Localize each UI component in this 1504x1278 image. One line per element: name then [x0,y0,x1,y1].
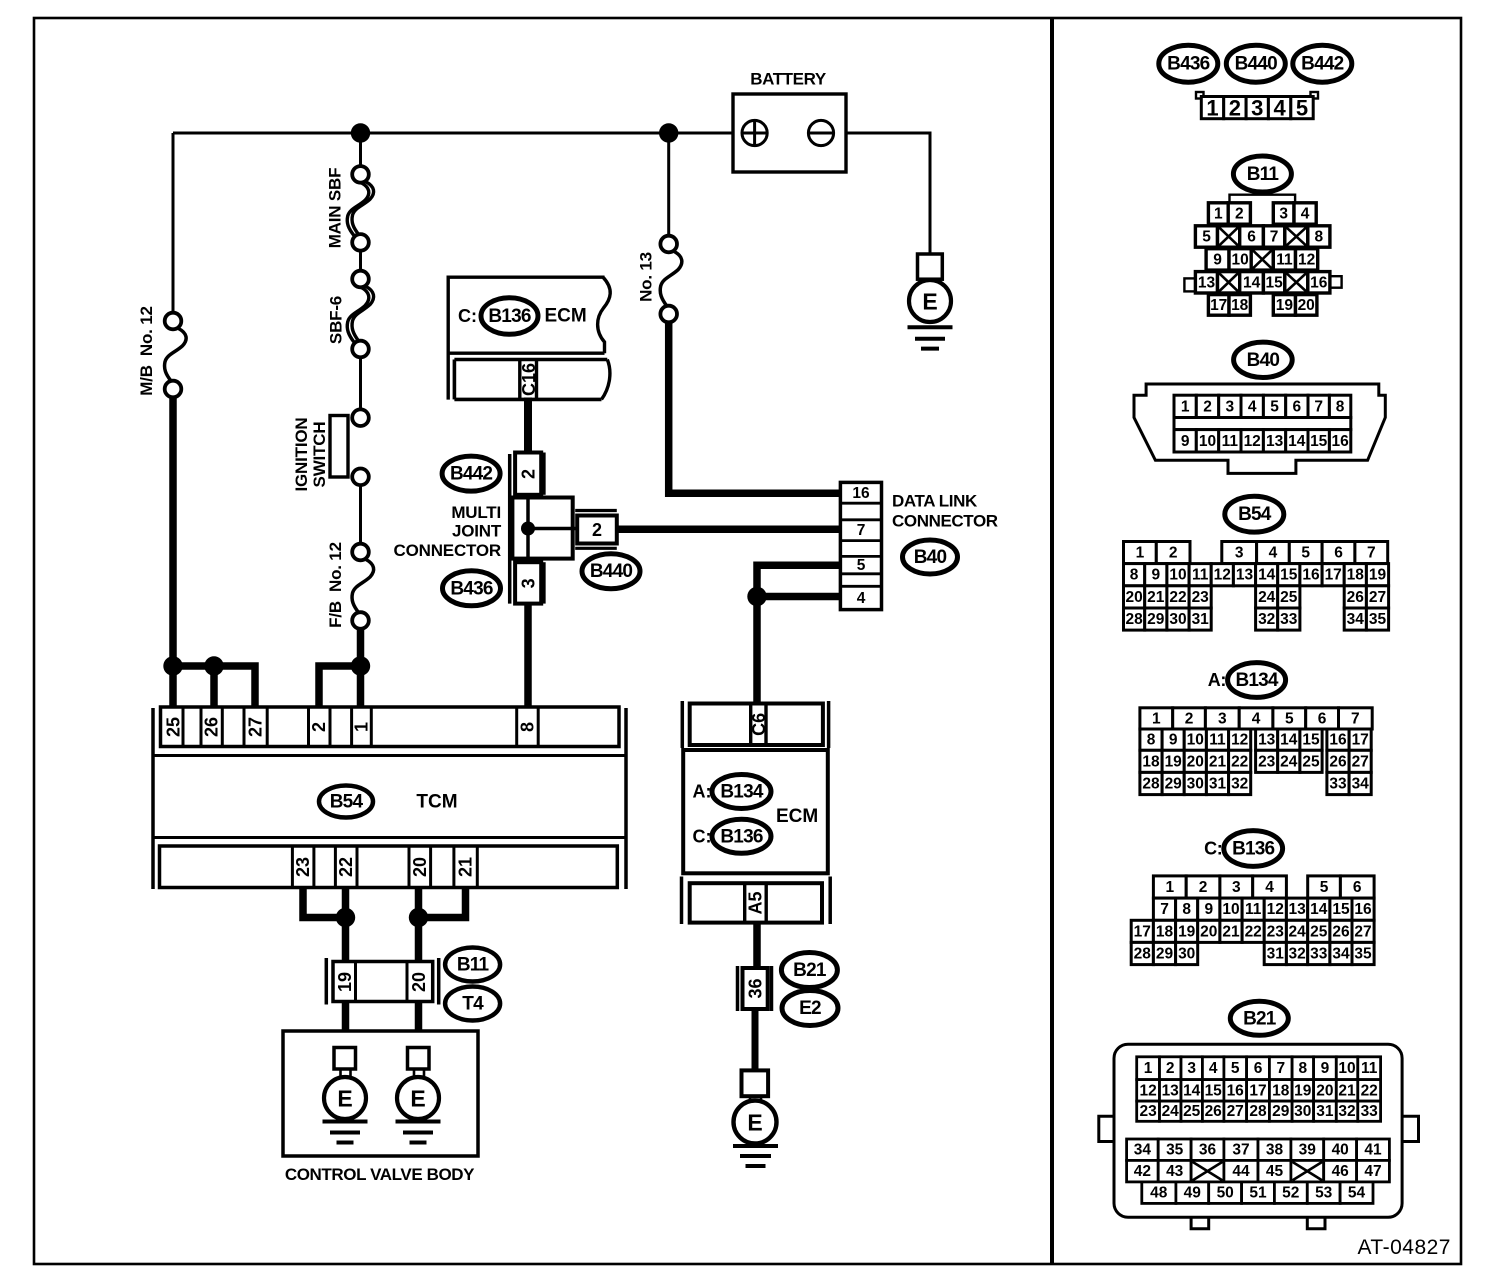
svg-text:8: 8 [1298,1060,1307,1077]
svg-text:6: 6 [1318,710,1327,727]
svg-text:13: 13 [1288,901,1306,918]
svg-text:48: 48 [1150,1185,1168,1202]
solenoid ground E (pin 20) [396,1048,441,1143]
mjc side pin 2 (B440) [575,509,617,512]
svg-text:9: 9 [1181,433,1190,450]
svg-text:BATTERY: BATTERY [750,70,827,89]
label B440 [582,554,640,589]
svg-text:38: 38 [1266,1142,1284,1159]
svg-text:2: 2 [592,520,602,540]
connector pinout B40 [1134,384,1385,473]
svg-text:21: 21 [1209,753,1227,770]
svg-text:5: 5 [1202,229,1211,246]
svg-text:11: 11 [1222,433,1239,450]
wire: mjc side pin 2 to data link connector pin 7 [617,526,841,534]
svg-text:26: 26 [1205,1103,1223,1120]
svg-text:20: 20 [1125,589,1142,606]
svg-text:20: 20 [410,857,430,877]
svg-text:19: 19 [1178,923,1196,940]
connector pinout B21 [1099,1044,1419,1229]
svg-text:17: 17 [1352,732,1369,749]
svg-text:25: 25 [1310,923,1328,940]
svg-text:7: 7 [1351,710,1360,727]
svg-text:22: 22 [1245,923,1262,940]
svg-text:30: 30 [1169,611,1186,628]
svg-text:MULTI: MULTI [451,503,501,522]
svg-text:2: 2 [1235,206,1244,223]
svg-text:15: 15 [1265,274,1283,291]
svg-text:13: 13 [1198,274,1216,291]
svg-text:31: 31 [1267,946,1285,963]
svg-text:6: 6 [1353,879,1362,896]
wire: MAIN SBF branch from bus (thin) [359,133,362,167]
svg-text:8: 8 [1314,229,1323,246]
svg-text:20: 20 [1298,297,1315,314]
svg-text:B442: B442 [1301,54,1343,75]
svg-text:23: 23 [1139,1103,1157,1120]
svg-text:11: 11 [1245,901,1262,918]
svg-text:3: 3 [1232,879,1241,896]
svg-text:21: 21 [1338,1082,1356,1099]
tcm top connector row [161,707,620,747]
wire: junction feed to TCM pins 25/26/27 [173,666,255,708]
svg-text:19: 19 [1369,567,1387,584]
svg-text:32: 32 [1231,776,1248,793]
svg-text:B440: B440 [1235,54,1277,75]
svg-text:ECM: ECM [776,806,818,827]
svg-text:12: 12 [1267,901,1284,918]
svg-text:53: 53 [1315,1185,1333,1202]
svg-text:29: 29 [1272,1103,1290,1120]
svg-text:E: E [337,1086,352,1112]
svg-text:5: 5 [1270,398,1279,415]
svg-text:25: 25 [164,717,184,737]
svg-text:10: 10 [1169,567,1186,584]
svg-text:24: 24 [1162,1103,1180,1120]
svg-text:16: 16 [1329,732,1347,749]
svg-text:19: 19 [1276,297,1294,314]
svg-text:2: 2 [309,722,329,732]
wire: battery positive bus (top horizontal) [173,132,743,135]
svg-text:5: 5 [1285,710,1294,727]
svg-text:21: 21 [1222,923,1240,940]
svg-text:4: 4 [1248,398,1257,415]
svg-text:22: 22 [336,857,356,877]
svg-text:A:: A: [1208,670,1226,690]
svg-text:B436: B436 [450,578,492,599]
svg-text:20: 20 [409,972,429,992]
svg-text:E: E [922,289,937,315]
svg-text:30: 30 [1294,1103,1311,1120]
connector pinout B11 [1184,195,1341,316]
svg-text:8: 8 [1147,732,1156,749]
svg-text:9: 9 [1204,901,1213,918]
svg-text:28: 28 [1249,1103,1267,1120]
svg-text:13: 13 [1258,732,1276,749]
wire: ignition switch to F/B No. 12 [359,485,362,544]
panel divider line [1050,19,1054,1263]
svg-text:21: 21 [456,857,476,877]
wire: TCM pin 20 down to T4 pin 20 [415,886,423,962]
svg-text:12: 12 [1244,433,1261,450]
svg-text:15: 15 [1280,567,1298,584]
svg-text:12: 12 [1214,567,1231,584]
svg-text:B440: B440 [590,561,632,582]
wire: F/B No.12 fuse to TCM pins 1/2 junction (thick) [357,628,365,666]
svg-text:CONNECTOR: CONNECTOR [394,541,501,560]
ECM connector C16 (torn box) [447,276,611,400]
svg-text:11: 11 [1276,251,1293,268]
svg-text:8: 8 [1130,567,1139,584]
svg-text:33: 33 [1280,611,1298,628]
svg-text:3: 3 [1218,710,1227,727]
svg-text:23: 23 [293,857,313,877]
svg-text:ECM: ECM [545,306,587,327]
svg-text:27: 27 [246,717,266,737]
svg-text:C16: C16 [519,363,539,396]
mjc body [512,498,572,559]
svg-text:CONNECTOR: CONNECTOR [892,512,998,531]
node: junction M/B pin26 [204,656,223,675]
label T4 [445,987,500,1021]
svg-text:4: 4 [1252,710,1261,727]
svg-text:14: 14 [1243,274,1261,291]
svg-text:13: 13 [1236,567,1254,584]
svg-text:9: 9 [1213,251,1222,268]
svg-text:32: 32 [1338,1103,1355,1120]
svg-text:B136: B136 [488,306,530,327]
label B442 (panel) [1293,45,1352,82]
svg-text:51: 51 [1249,1185,1267,1202]
svg-text:4: 4 [1265,879,1274,896]
inline connector B11/T4 pins 19-20 [326,958,438,1005]
svg-text:21: 21 [1147,589,1165,606]
svg-text:14: 14 [1258,567,1276,584]
svg-text:17: 17 [1325,567,1342,584]
node: bus junction at No. 13 branch [659,123,678,142]
tcm body edges [153,754,626,757]
label B21 [781,953,837,988]
svg-text:M/B No. 12: M/B No. 12 [137,306,156,395]
mjc internal wire [526,498,530,559]
svg-text:28: 28 [1125,611,1143,628]
node: mjc junction [521,522,535,536]
svg-text:15: 15 [1302,732,1320,749]
svg-text:12: 12 [1231,732,1248,749]
svg-text:16: 16 [1354,901,1372,918]
svg-text:18: 18 [1142,753,1160,770]
ECM body [683,750,828,873]
svg-text:3: 3 [1235,545,1244,562]
svg-text:B436: B436 [1167,54,1209,75]
svg-text:1: 1 [1206,96,1218,121]
wire: No. 13 branch (thin above fuse) [667,133,670,237]
svg-text:22: 22 [1361,1082,1378,1099]
svg-text:23: 23 [1258,753,1276,770]
svg-text:17: 17 [1210,297,1227,314]
svg-text:31: 31 [1316,1103,1334,1120]
node: junction F/B pins 1-2 [351,656,370,675]
svg-text:19: 19 [1165,753,1183,770]
svg-text:43: 43 [1166,1163,1184,1180]
svg-text:1: 1 [1214,206,1223,223]
label B11 [445,948,500,982]
wire: T4 pin 19 to solenoid 1 [342,1002,350,1049]
svg-text:16: 16 [1331,433,1349,450]
label B436 [443,571,501,606]
svg-text:32: 32 [1288,946,1305,963]
svg-text:24: 24 [1288,923,1306,940]
svg-text:C:: C: [1204,839,1222,859]
label B11 (panel) [1233,156,1291,192]
svg-text:AT-04827: AT-04827 [1357,1236,1451,1259]
svg-text:1: 1 [352,722,372,732]
svg-text:13: 13 [1266,433,1284,450]
svg-text:10: 10 [1338,1060,1355,1077]
svg-text:4: 4 [1273,96,1286,121]
svg-text:18: 18 [1347,567,1365,584]
svg-text:45: 45 [1266,1163,1284,1180]
svg-text:34: 34 [1347,611,1365,628]
svg-text:36: 36 [1199,1142,1217,1159]
svg-text:2: 2 [1203,398,1212,415]
svg-text:30: 30 [1187,776,1204,793]
label B436 (panel) [1159,45,1218,82]
label E2 [782,991,838,1026]
svg-text:18: 18 [1272,1082,1290,1099]
control valve body [283,1031,478,1156]
svg-text:10: 10 [1187,732,1204,749]
wire: battery negative lead to ground [834,133,931,255]
svg-text:35: 35 [1166,1142,1184,1159]
svg-text:MAIN SBF: MAIN SBF [326,168,345,249]
fuse SBF-6 [347,271,373,358]
svg-text:11: 11 [1361,1060,1378,1077]
svg-text:47: 47 [1364,1163,1381,1180]
node: junction M/B pin25 [163,656,182,675]
svg-text:34: 34 [1134,1142,1152,1159]
wire: No. 13 fuse to data link connector pin 16 (thick) [669,322,841,494]
svg-text:DATA LINK: DATA LINK [892,492,978,511]
svg-text:17: 17 [1134,923,1151,940]
svg-text:23: 23 [1267,923,1285,940]
svg-text:7: 7 [1270,229,1279,246]
connector pinout B136 [1131,876,1374,965]
svg-text:27: 27 [1354,923,1371,940]
label B40 (panel) [1234,342,1293,377]
svg-text:9: 9 [1169,732,1178,749]
svg-text:24: 24 [1280,753,1298,770]
svg-text:13: 13 [1162,1082,1180,1099]
svg-text:26: 26 [1332,923,1350,940]
svg-text:24: 24 [1258,589,1276,606]
svg-text:1: 1 [1136,545,1145,562]
svg-text:1: 1 [1144,1060,1153,1077]
svg-text:12: 12 [1298,251,1315,268]
wire: DLC pins 4/5 to ECM C6 [757,565,841,703]
svg-text:26: 26 [202,717,222,737]
svg-text:20: 20 [1200,923,1217,940]
svg-text:12: 12 [1139,1082,1156,1099]
svg-text:5: 5 [857,557,866,574]
svg-text:18: 18 [1156,923,1174,940]
mjc pin 3 (B436) [515,562,541,603]
svg-text:B134: B134 [1235,670,1278,691]
svg-text:31: 31 [1209,776,1227,793]
svg-text:19: 19 [1294,1082,1312,1099]
svg-text:3: 3 [1187,1060,1196,1077]
b21 left tab [1099,1116,1114,1141]
svg-text:11: 11 [1209,732,1226,749]
svg-text:4: 4 [857,590,866,607]
ground E (ECM) [733,1070,778,1166]
svg-text:33: 33 [1329,776,1347,793]
svg-text:22: 22 [1231,753,1248,770]
svg-text:39: 39 [1299,1142,1317,1159]
svg-text:31: 31 [1192,611,1210,628]
wire: TCM pin 23 to junction [303,886,346,918]
svg-text:B134: B134 [720,782,763,803]
tcm bottom connector row [160,846,618,888]
svg-text:14: 14 [1280,732,1298,749]
svg-text:27: 27 [1352,753,1369,770]
svg-text:C:: C: [458,306,477,326]
ignition switch [330,409,369,485]
svg-text:17: 17 [1249,1082,1266,1099]
svg-text:B21: B21 [793,960,827,981]
data link connector B40 [840,482,881,609]
solenoid ground E (pin 19) [323,1048,368,1143]
svg-text:E: E [747,1110,762,1136]
svg-text:9: 9 [1321,1060,1330,1077]
svg-text:34: 34 [1352,776,1370,793]
svg-text:8: 8 [1182,901,1191,918]
svg-text:1: 1 [1165,879,1174,896]
ECM connector C6 [682,701,828,748]
connector pinout B436/B440/B442 (5 pin) [1196,92,1318,121]
svg-text:33: 33 [1361,1103,1379,1120]
label B440 (panel) [1226,45,1285,82]
svg-text:25: 25 [1183,1103,1201,1120]
b21 bottom tabs [1191,1217,1209,1228]
b21 shell [1114,1044,1402,1217]
svg-text:A:: A: [693,782,712,802]
svg-text:5: 5 [1231,1060,1240,1077]
svg-text:8: 8 [518,722,538,732]
svg-text:10: 10 [1231,251,1248,268]
svg-text:2: 2 [1169,545,1178,562]
node: junction DLC 4/5 [747,587,766,606]
svg-text:8: 8 [1336,398,1345,415]
wire: ECM A5 to connector pin 36 [753,923,761,968]
svg-text:1: 1 [1181,398,1190,415]
wire: ECM C16 to multi joint connector pin 2 [524,398,532,454]
svg-text:1: 1 [1152,710,1161,727]
mjc pin 2 (B442) [515,453,541,495]
svg-text:14: 14 [1288,433,1306,450]
wire: junction feed to TCM pins 1/2 [319,666,361,708]
svg-text:6: 6 [1292,398,1301,415]
svg-text:B40: B40 [914,547,947,568]
svg-text:41: 41 [1364,1142,1382,1159]
svg-text:3: 3 [519,578,539,588]
svg-text:14: 14 [1183,1082,1201,1099]
svg-text:27: 27 [1369,589,1386,606]
svg-text:B40: B40 [1247,350,1280,371]
svg-text:2: 2 [1199,879,1208,896]
svg-text:28: 28 [1134,946,1152,963]
svg-text:C6: C6 [749,713,769,736]
svg-text:B54: B54 [1238,504,1272,525]
fuse M/B No. 12 [165,313,187,398]
svg-text:29: 29 [1165,776,1183,793]
svg-text:22: 22 [1169,589,1186,606]
svg-text:4: 4 [1209,1060,1218,1077]
node: junction pins 20/21 [409,908,428,927]
svg-text:15: 15 [1205,1082,1223,1099]
svg-text:16: 16 [1227,1082,1245,1099]
svg-text:B136: B136 [720,826,762,847]
node: bus junction at MAIN SBF branch [351,123,370,142]
svg-text:IGNITION: IGNITION [292,418,311,492]
label B40 [903,540,958,574]
svg-text:B11: B11 [457,955,490,976]
svg-text:JOINT: JOINT [452,522,502,541]
ECM connector A5 [682,877,831,925]
svg-text:26: 26 [1347,589,1365,606]
svg-text:16: 16 [852,485,870,502]
svg-text:30: 30 [1178,946,1195,963]
svg-text:25: 25 [1302,753,1320,770]
svg-text:44: 44 [1232,1163,1250,1180]
fuse MAIN SBF [347,166,373,251]
svg-text:6: 6 [1254,1060,1263,1077]
svg-text:11: 11 [1192,567,1209,584]
svg-text:36: 36 [746,978,766,998]
svg-text:35: 35 [1354,946,1372,963]
svg-text:7: 7 [1160,901,1169,918]
svg-text:54: 54 [1348,1185,1366,1202]
connector pinout B54 [1124,542,1389,631]
tcm side rails [151,708,155,889]
svg-text:40: 40 [1332,1142,1349,1159]
wire: TCM pin 22 down to T4 pin 19 [342,886,350,962]
label B54 [319,786,373,818]
svg-text:9: 9 [1151,567,1160,584]
svg-text:37: 37 [1232,1142,1249,1159]
svg-text:TCM: TCM [416,792,457,813]
svg-text:28: 28 [1142,776,1160,793]
svg-text:19: 19 [335,972,355,992]
connector pinout B134 [1140,708,1372,795]
fuse F/B No. 12 [352,544,374,629]
label B442 [442,456,500,491]
wire: T4 pin 20 to solenoid 2 [415,1002,423,1049]
svg-text:7: 7 [1367,545,1376,562]
svg-text:33: 33 [1310,946,1328,963]
svg-text:2: 2 [519,469,539,479]
b21 right tab [1402,1116,1418,1141]
svg-text:4: 4 [1301,206,1310,223]
svg-text:10: 10 [1199,433,1216,450]
svg-text:49: 49 [1184,1185,1202,1202]
wire: pin 36 to ground [752,1009,759,1071]
wire: M/B No. 12 branch vertical (thin) [172,133,175,314]
svg-text:16: 16 [1310,274,1328,291]
svg-text:46: 46 [1332,1163,1350,1180]
svg-text:5: 5 [1296,96,1308,121]
node: junction pins 22/23 [336,908,355,927]
